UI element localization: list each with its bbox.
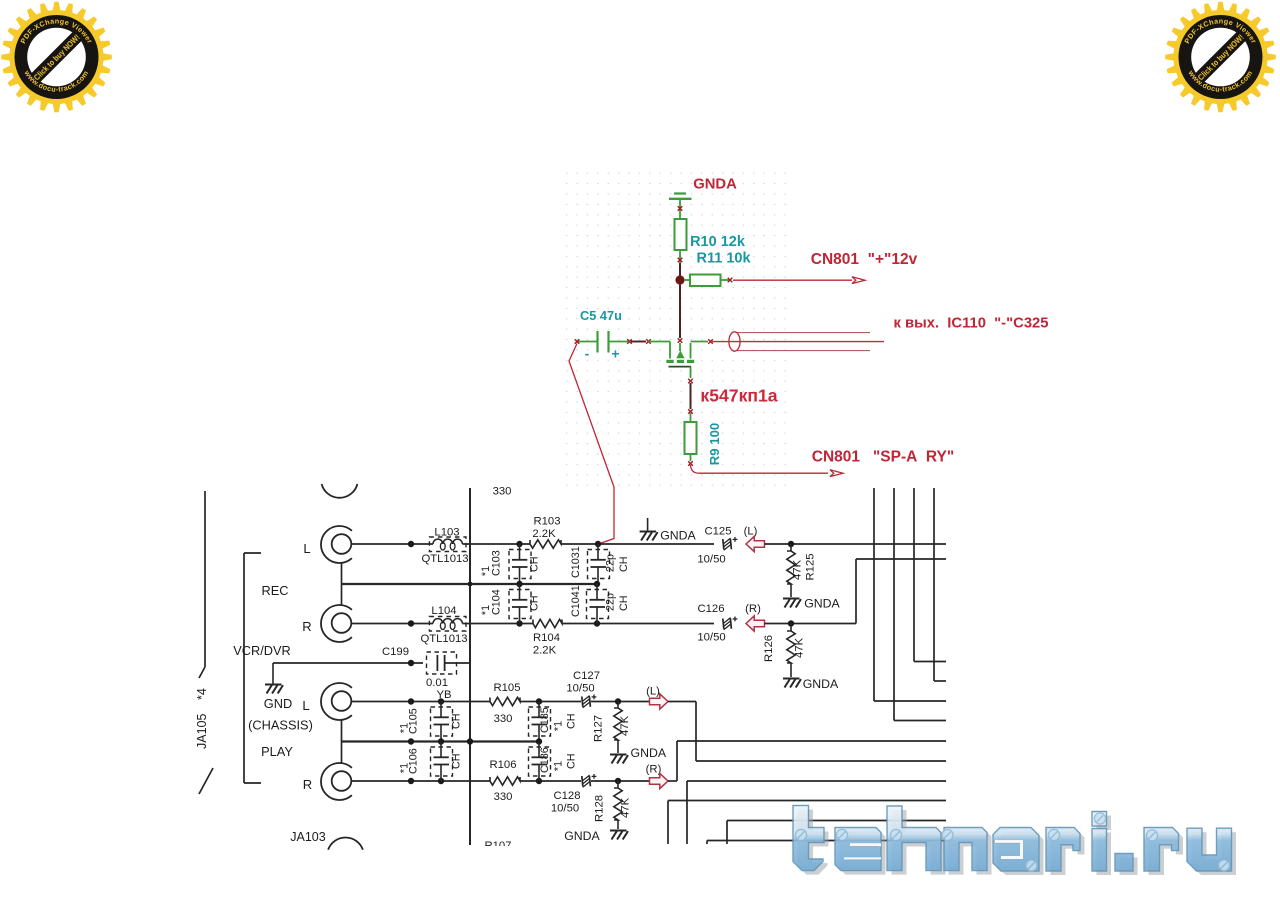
svg-text:22p: 22p — [605, 593, 617, 611]
shell wire PLAY R — [341, 742, 343, 764]
svg-text:C105: C105 — [408, 708, 420, 734]
svg-text:-: - — [585, 346, 590, 362]
wire junction to drain — [679, 285, 681, 338]
svg-text:C104: C104 — [491, 589, 503, 615]
svg-text:CH: CH — [451, 753, 463, 769]
svg-text:R11 10k: R11 10k — [696, 251, 751, 267]
svg-text:330: 330 — [494, 713, 513, 725]
wire R105 to C127 — [520, 701, 581, 703]
svg-text:PLAY: PLAY — [261, 744, 293, 759]
capacitor C104 — [519, 584, 521, 600]
svg-text:R10 12k: R10 12k — [690, 234, 746, 250]
svg-text:CH: CH — [529, 556, 541, 572]
svg-text:C1041: C1041 — [570, 585, 582, 617]
connector RCA REC L — [321, 526, 352, 563]
svg-text:C1031: C1031 — [570, 546, 582, 578]
svg-text:GNDA: GNDA — [660, 529, 696, 543]
connector JA105 bracket — [204, 491, 206, 667]
svg-text:C125: C125 — [704, 526, 731, 538]
capacitor C128 — [582, 776, 583, 786]
junction R127 top — [615, 698, 621, 704]
svg-text:L104: L104 — [431, 605, 456, 617]
connector upper (cut) arc — [322, 484, 358, 498]
transistor Q1 k547kp1a (MOSFET) — [669, 342, 671, 359]
svg-text:JA105: JA105 — [195, 714, 209, 749]
wire C128 to arrow — [591, 780, 650, 782]
svg-text:R105: R105 — [493, 682, 520, 694]
capacitor C126 — [723, 619, 724, 629]
junction REC R — [408, 620, 414, 626]
ground GNDA near C125 — [647, 518, 649, 531]
svg-text:L103: L103 — [434, 527, 459, 539]
svg-text:CH: CH — [451, 713, 463, 729]
wire lower net 2 — [668, 800, 946, 802]
svg-text:GNDA: GNDA — [803, 677, 839, 691]
wire R106 to C128 — [520, 780, 581, 782]
resistor R127 — [617, 702, 619, 709]
svg-text:10/50: 10/50 — [566, 683, 594, 695]
junction R126 top — [788, 620, 794, 626]
wire PLAY R output — [668, 780, 677, 782]
resistor R126 — [790, 624, 792, 632]
svg-text:QTL1013: QTL1013 — [421, 553, 468, 565]
svg-text:(L): (L) — [744, 526, 758, 538]
svg-text:R127: R127 — [593, 715, 605, 742]
svg-text:L: L — [302, 698, 309, 713]
wire R10 to junction — [679, 250, 681, 263]
junction C105 top — [438, 698, 444, 704]
svg-text:R103: R103 — [533, 516, 560, 528]
svg-text:CH: CH — [566, 753, 578, 769]
svg-text:47K: 47K — [620, 797, 632, 818]
junction C1041 bottom — [594, 620, 600, 626]
svg-text:R9 100: R9 100 — [707, 423, 722, 466]
svg-text:0.01: 0.01 — [426, 677, 448, 689]
resistor R103 — [530, 540, 561, 548]
shell wire PLAY L — [341, 720, 343, 742]
svg-text:*1: *1 — [553, 721, 565, 731]
connector JA103 arc (cut) — [328, 837, 363, 849]
cable ellipse — [729, 332, 740, 351]
svg-text:C185: C185 — [539, 707, 551, 733]
connector RCA PLAY R — [321, 763, 352, 800]
capacitor C186 — [538, 742, 540, 758]
svg-text:330: 330 — [493, 486, 512, 498]
wire PLAY R row — [352, 780, 490, 782]
wire red link to lower schematic — [569, 344, 614, 545]
svg-text:10/50: 10/50 — [551, 803, 579, 815]
arrow (L) C125 — [746, 536, 765, 551]
ground GNDA R128 — [610, 830, 627, 832]
capacitor C185 — [538, 702, 540, 718]
wire L104 to R104 — [462, 623, 533, 625]
ground GNDA R125 — [783, 598, 800, 600]
svg-text:CH: CH — [618, 556, 630, 572]
svg-text:GNDA: GNDA — [693, 177, 737, 193]
wire C5 to gate — [631, 341, 646, 343]
capacitor C103 — [519, 544, 521, 560]
svg-text:*4: *4 — [195, 688, 209, 700]
wire C126 to R126 and step right — [765, 623, 857, 625]
junction C185 top — [536, 698, 542, 704]
shell wire REC R — [341, 584, 343, 605]
wire to CN801 +12v — [733, 279, 852, 281]
wire bus line 4 — [933, 488, 935, 681]
junction PLAY common / bus — [467, 738, 473, 744]
svg-text:YB: YB — [436, 689, 451, 701]
wire to IC110 output — [712, 341, 884, 343]
ground GNDA R127 — [610, 754, 627, 756]
svg-text:CH: CH — [566, 713, 578, 729]
watermark stamp top-right — [1165, 2, 1276, 113]
junction C186 bottom — [536, 778, 542, 784]
inductor L103 — [433, 539, 462, 544]
junction C104 bottom — [516, 620, 522, 626]
svg-text:2.2K: 2.2K — [532, 528, 556, 540]
svg-text:C127: C127 — [573, 670, 600, 682]
ground GNDA R126 — [783, 678, 800, 680]
svg-text:R106: R106 — [489, 759, 516, 771]
wire REC L row — [352, 543, 433, 545]
watermark tehnari.ru letters — [793, 806, 1232, 872]
junction R128 top — [615, 778, 621, 784]
svg-text:C199: C199 — [382, 646, 409, 658]
svg-text:C186: C186 — [539, 747, 551, 773]
svg-text:L: L — [303, 541, 310, 556]
junction PLAY common b — [438, 738, 444, 744]
wire lower net 4 — [707, 840, 946, 842]
wire REC common — [342, 583, 597, 585]
svg-text:C103: C103 — [491, 550, 503, 576]
wire R9 to CN801 SP-A RY — [690, 454, 692, 461]
resistor R125 — [790, 544, 792, 551]
resistor R9 — [685, 422, 697, 454]
ground GND chassis — [272, 663, 274, 684]
resistor R128 — [617, 781, 619, 788]
resistor R10 — [675, 219, 687, 250]
svg-text:R126: R126 — [763, 635, 775, 662]
svg-text:GNDA: GNDA — [564, 829, 600, 843]
junction R125 top — [788, 541, 794, 547]
svg-text:GND: GND — [264, 696, 292, 711]
capacitor C125 — [723, 539, 724, 549]
wire PLAY common — [342, 740, 539, 742]
connector RCA PLAY L — [321, 683, 352, 720]
arrow CN801 +12v — [852, 277, 865, 284]
svg-text:C128: C128 — [553, 790, 580, 802]
wire REC R row — [352, 623, 433, 625]
svg-text:(R): (R) — [745, 603, 761, 615]
capacitor C1031 — [597, 544, 599, 560]
svg-text:R: R — [302, 619, 311, 634]
bracket VCR/DVR group — [243, 553, 245, 783]
svg-text:VCR/DVR: VCR/DVR — [233, 643, 291, 658]
junction PLAY common a — [408, 738, 414, 744]
svg-text:CH: CH — [618, 595, 630, 611]
wire C127 to arrow — [591, 701, 650, 703]
arrow CN801 SP-A RY — [830, 470, 843, 477]
resistor R106 — [490, 777, 520, 785]
junction REC L — [408, 541, 414, 547]
svg-text:JA103: JA103 — [290, 830, 325, 844]
wire C125 to R125 — [765, 543, 947, 545]
svg-text:330: 330 — [494, 791, 513, 803]
svg-text:10/50: 10/50 — [697, 554, 725, 566]
svg-text:10/50: 10/50 — [697, 632, 725, 644]
wire vertical bus — [469, 488, 471, 845]
capacitor C1041 — [596, 584, 598, 600]
junction PLAY R — [408, 778, 414, 784]
inductor L104 — [433, 619, 462, 624]
junction C199 — [408, 660, 414, 666]
watermark stamp top-left — [1, 2, 112, 113]
svg-text:к вых. IC110 "-"C325: к вых. IC110 "-"C325 — [893, 316, 1048, 332]
svg-text:CH: CH — [529, 595, 541, 611]
wire transistor right terminal — [691, 341, 709, 343]
svg-text:+: + — [611, 346, 619, 362]
svg-text:CN801 "SP-A RY": CN801 "SP-A RY" — [812, 449, 954, 466]
resistor R105 — [490, 697, 520, 705]
junction node R103/C1031/red link — [595, 541, 601, 547]
arrow (R) PLAY — [650, 773, 669, 788]
wire bus line 2 — [893, 488, 895, 721]
svg-text:GNDA: GNDA — [631, 746, 667, 760]
arrow (R) C126 — [746, 616, 765, 631]
wire PLAY L row — [352, 701, 490, 703]
svg-text:47K: 47K — [792, 559, 804, 580]
svg-text:47K: 47K — [619, 715, 631, 736]
wire PLAY L output — [668, 701, 696, 703]
watermark screws — [795, 813, 1229, 871]
capacitor C5 — [578, 341, 597, 343]
capacitor C106 — [440, 742, 442, 758]
capacitor C127 — [582, 697, 583, 707]
svg-text:2.2K: 2.2K — [533, 645, 557, 657]
junction PLAY L — [408, 698, 414, 704]
svg-text:C5 47u: C5 47u — [580, 308, 622, 323]
watermark tehnari.ru shadow — [798, 810, 1237, 876]
junction C103 bottom / C104 top — [516, 581, 522, 587]
svg-text:*1: *1 — [553, 761, 565, 771]
shell wire REC L — [341, 563, 343, 584]
svg-text:QTL1013: QTL1013 — [420, 633, 467, 645]
svg-text:R125: R125 — [805, 553, 817, 580]
junction PLAY common c — [536, 738, 542, 744]
svg-text:CN801 "+"12v: CN801 "+"12v — [811, 251, 918, 268]
svg-text:R104: R104 — [533, 632, 560, 644]
wire bus line 1 — [873, 488, 875, 701]
svg-text:C126: C126 — [697, 603, 724, 615]
capacitor C105 — [440, 702, 442, 718]
junction node R10/R11/drain — [675, 275, 684, 284]
svg-text:к547кп1а: к547кп1а — [700, 386, 777, 406]
wire C199 row — [273, 662, 423, 664]
wire lower net 1 — [687, 780, 946, 782]
wire L103 to R103 — [462, 543, 530, 545]
capacitor C199 — [436, 655, 438, 671]
arrow (L) PLAY — [650, 694, 669, 709]
svg-text:(CHASSIS): (CHASSIS) — [248, 718, 313, 733]
wire R104 to C126 — [562, 623, 714, 625]
svg-text:GNDA: GNDA — [804, 597, 840, 611]
wire lower net 3 — [727, 820, 946, 822]
resistor R104 — [533, 619, 562, 627]
junction C106 bottom — [438, 778, 444, 784]
junction REC common / bus — [468, 582, 473, 587]
svg-text:47K: 47K — [794, 637, 806, 658]
wire bus line 3 — [913, 488, 915, 662]
svg-text:REC: REC — [261, 583, 288, 598]
ground GNDA (top) — [674, 192, 686, 194]
resistor R11 — [684, 279, 690, 281]
svg-text:R128: R128 — [594, 795, 606, 822]
junction C103 top — [516, 541, 522, 547]
wire source to R9 — [688, 379, 693, 384]
junction C1031 bottom / C1041 top — [594, 581, 600, 587]
connector RCA REC R — [321, 605, 352, 642]
svg-text:(L): (L) — [646, 686, 660, 698]
svg-text:C106: C106 — [408, 748, 420, 774]
svg-text:22p: 22p — [605, 554, 617, 572]
svg-text:R: R — [303, 777, 312, 792]
wire R103 to C125 — [561, 543, 714, 545]
